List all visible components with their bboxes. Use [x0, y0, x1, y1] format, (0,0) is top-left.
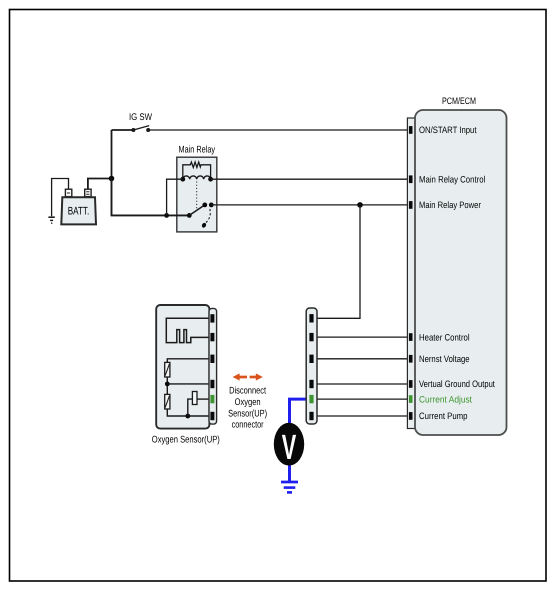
wire Vertual Ground Output: [314, 383, 410, 385]
pin Current Adjust: [409, 395, 413, 403]
junction relay coil left on power wire: [164, 213, 169, 218]
voltmeter V: [274, 423, 304, 467]
oxygen sensor box Oxygen Sensor(UP): [152, 305, 220, 445]
pin Vertual Ground Output: [409, 380, 413, 388]
svg-text:connector: connector: [232, 419, 265, 430]
pin relay coil right: [208, 177, 213, 182]
wire pump cell to pin 5: [197, 398, 209, 400]
svg-text:Heater Control: Heater Control: [419, 332, 470, 342]
wire pump cell branch: [188, 399, 193, 416]
wire Main Relay Control: [211, 178, 409, 180]
ground battery: [48, 217, 54, 223]
svg-text:Main Relay Power: Main Relay Power: [419, 200, 481, 210]
svg-text:IG SW: IG SW: [129, 112, 153, 123]
wire Current Pump: [314, 415, 410, 417]
dotted link relay coil to contact: [196, 182, 198, 210]
resistor heater lower: [165, 394, 170, 409]
pump cell element: [192, 392, 197, 405]
battery BATT.: [61, 189, 96, 224]
wire branch down to connector pin 1: [314, 205, 361, 318]
pin Nernst Voltage: [409, 355, 413, 363]
connector PCM side: [407, 118, 415, 429]
resistor relay coil suppressor: [183, 162, 211, 179]
inductor relay coil: [183, 176, 211, 179]
svg-text:Current Adjust: Current Adjust: [419, 394, 472, 404]
resistor heater upper: [165, 362, 170, 377]
wire voltmeter to ground blue: [288, 465, 291, 482]
wire heater mid junction: [167, 377, 208, 394]
wire Heater Control: [314, 336, 410, 338]
wire Current Adjust: [314, 398, 410, 400]
wire relay coil left lead: [167, 179, 183, 215]
pin Main Relay Power: [409, 201, 413, 209]
arrow disconnect left: [233, 373, 247, 380]
wire heater bottom to pin 6: [167, 409, 208, 416]
pin Main Relay Control: [409, 175, 413, 183]
wire IG SW to ON/START Input: [148, 129, 409, 131]
wire battery negative to ground: [52, 179, 69, 217]
connector harness side: [306, 308, 317, 424]
svg-text:BATT.: BATT.: [68, 206, 90, 218]
wire node A down to relay switch common: [112, 179, 190, 216]
node A junction battery positive: [109, 176, 115, 182]
junction Main Relay Power branch: [357, 202, 363, 208]
svg-text:Vertual Ground Output: Vertual Ground Output: [419, 379, 495, 389]
sensing element zirconia pulse symbol: [166, 318, 208, 342]
svg-text:Oxygen: Oxygen: [235, 397, 261, 408]
wire Main Relay Power: [211, 204, 409, 206]
pin ON/START Input: [409, 126, 413, 134]
svg-text:Current Pump: Current Pump: [419, 411, 468, 421]
wire Nernst Voltage: [314, 358, 410, 360]
ECU box PCM/ECM: [415, 95, 507, 435]
wire voltmeter blue lead to Current Adjust: [290, 399, 312, 424]
svg-text:Nernst Voltage: Nernst Voltage: [419, 354, 470, 364]
junction pump cell bottom: [185, 414, 190, 419]
relay Main Relay: [177, 145, 217, 232]
arrow disconnect right: [250, 373, 263, 380]
note disconnect oxygen sensor connector: [228, 386, 267, 431]
junction heater center tap: [165, 382, 170, 387]
switch IG SW: [131, 126, 150, 132]
connector oxygen sensor side: [209, 308, 217, 424]
pin relay coil left: [180, 177, 185, 182]
switch relay contact: [187, 203, 214, 218]
svg-text:Sensor(UP): Sensor(UP): [228, 408, 267, 419]
svg-text:PCM/ECM: PCM/ECM: [442, 95, 476, 106]
svg-text:Main Relay: Main Relay: [179, 145, 216, 156]
svg-text:Disconnect: Disconnect: [229, 386, 266, 397]
ground voltmeter: [281, 482, 298, 492]
svg-text:Oxygen Sensor(UP): Oxygen Sensor(UP): [152, 434, 220, 445]
svg-text:ON/START Input: ON/START Input: [419, 125, 477, 135]
wire heater top lead: [167, 359, 208, 363]
pin Heater Control: [409, 333, 413, 341]
wire battery positive to node A: [88, 179, 112, 191]
svg-text:Main Relay Control: Main Relay Control: [419, 175, 485, 185]
pin Current Pump: [409, 412, 413, 420]
dashed arrow relay contact travel: [201, 209, 210, 228]
svg-text:V: V: [282, 428, 297, 467]
wire node A up to IG SW: [112, 130, 134, 179]
